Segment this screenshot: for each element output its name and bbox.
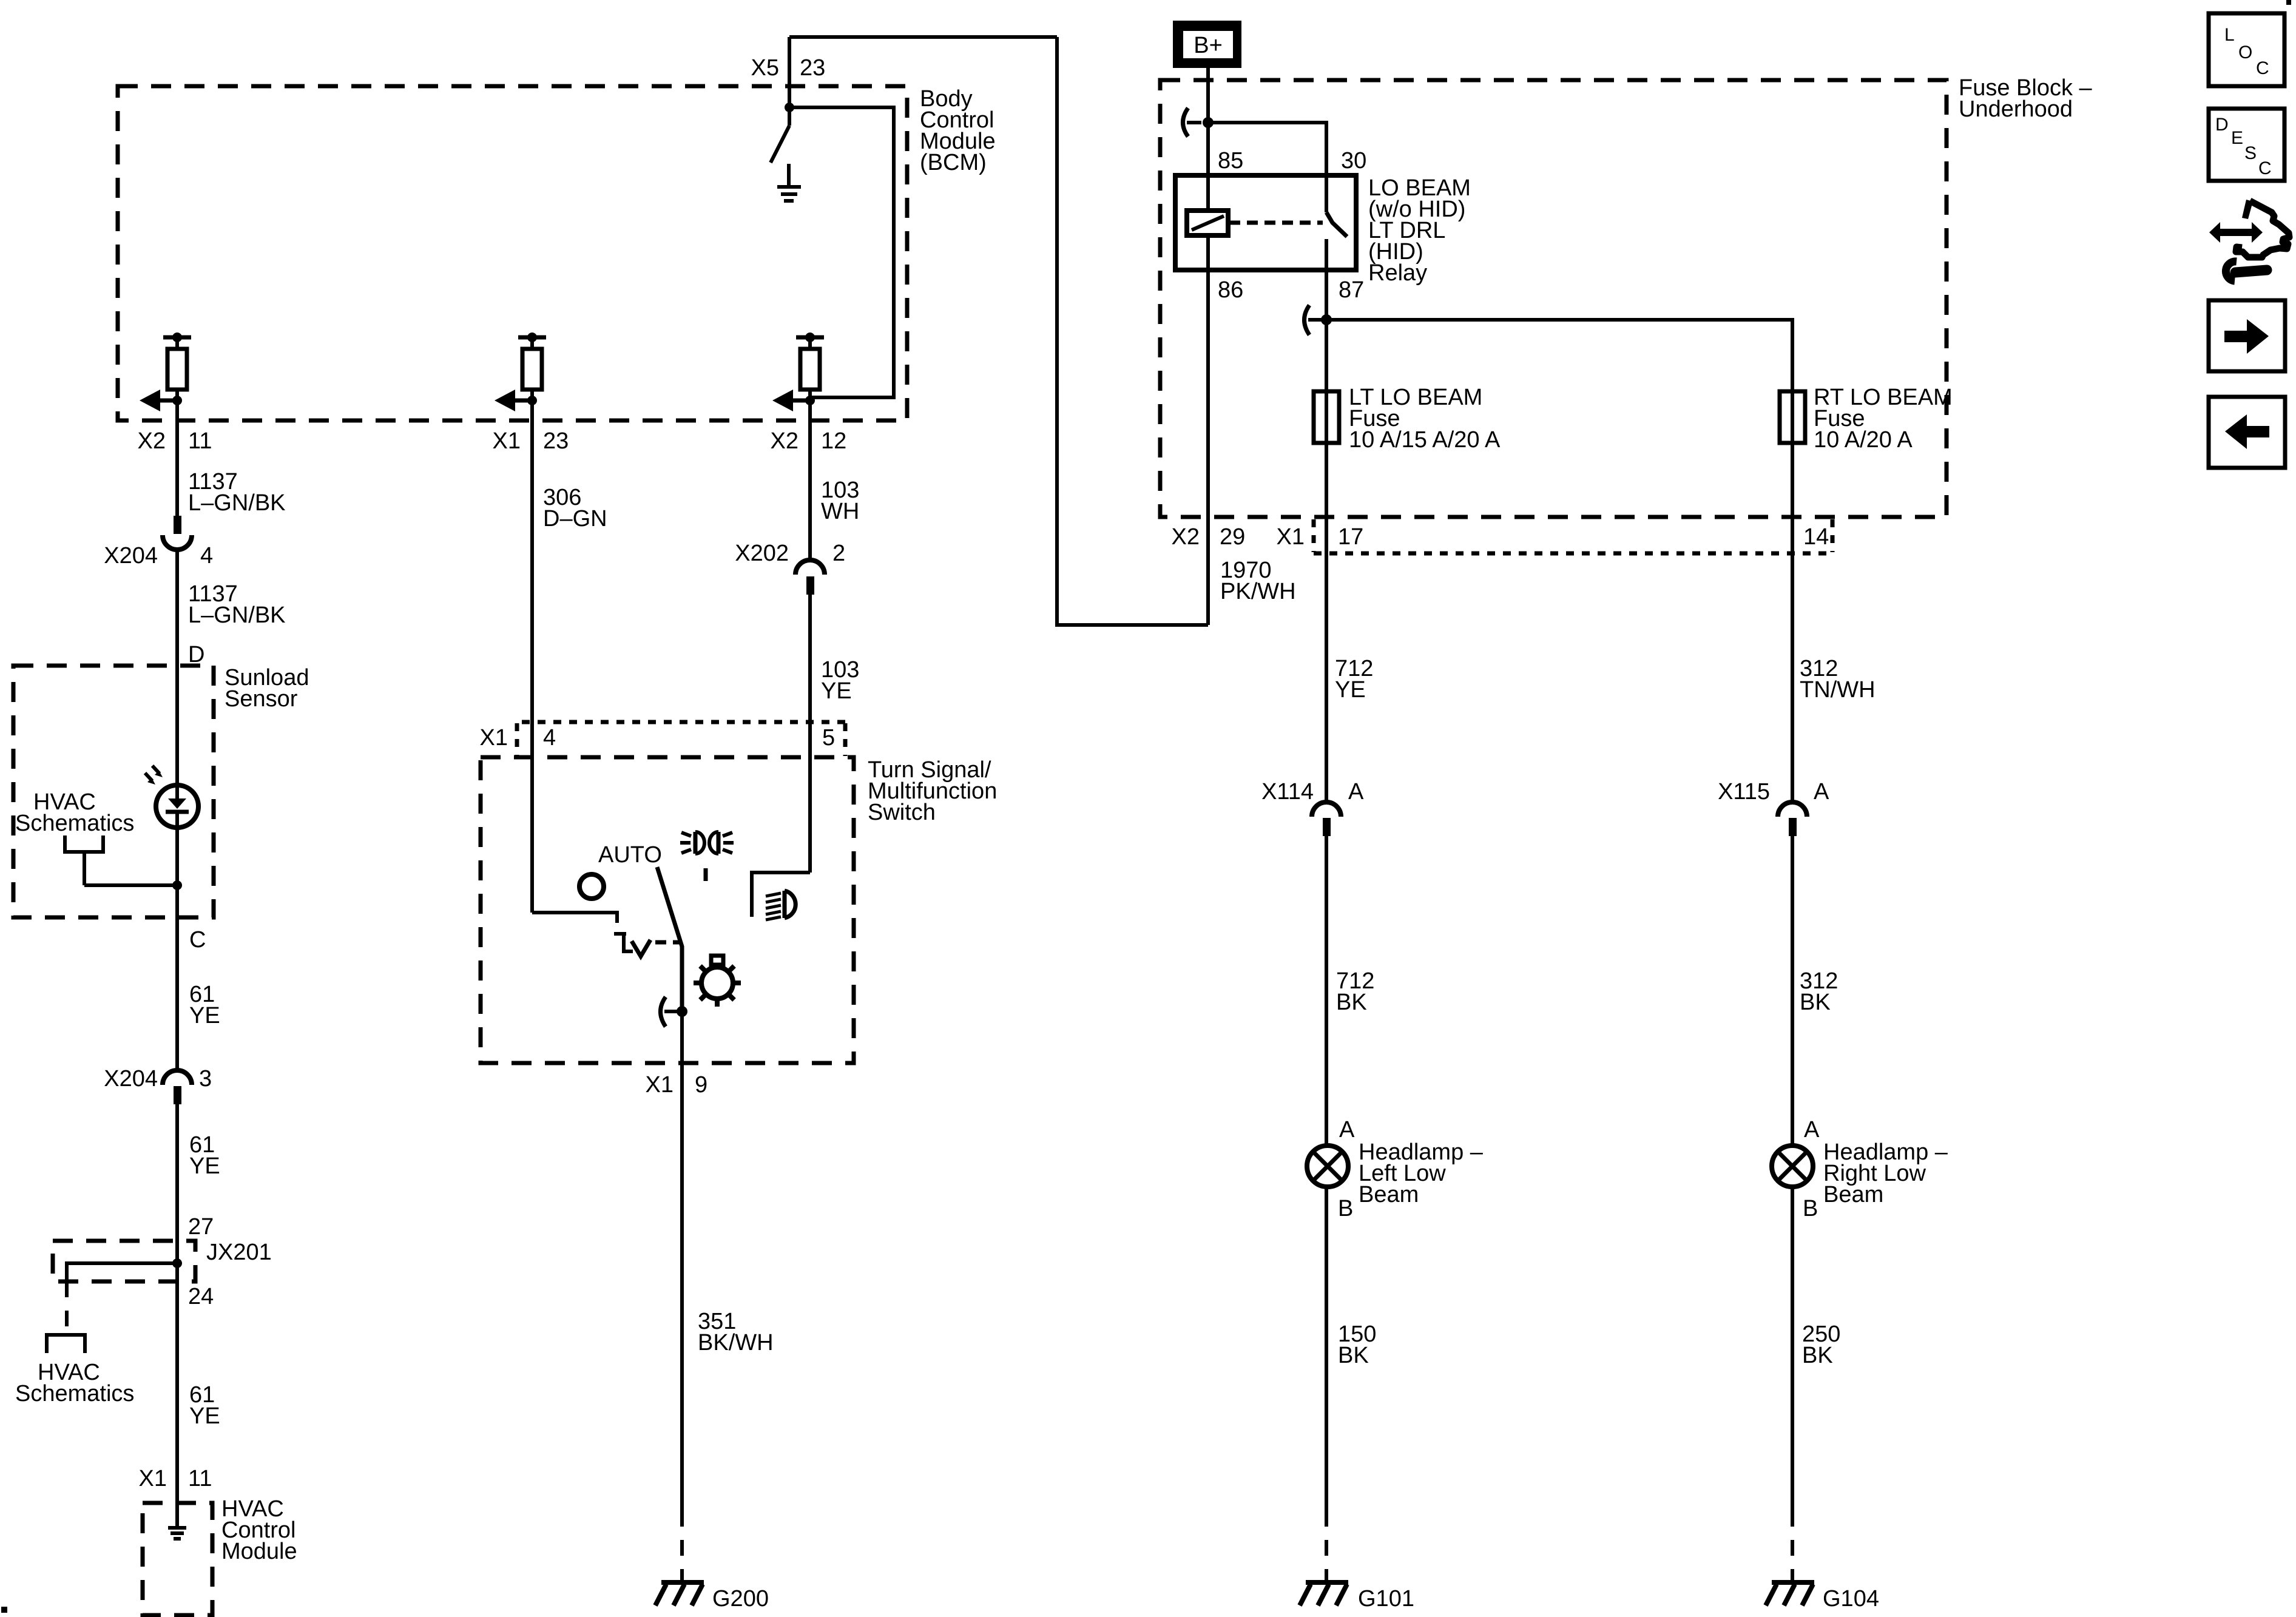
svg-text:X5: X5 [751,55,779,81]
ground G104 [1766,1575,1814,1605]
wire 87 to LT fuse [1325,320,1328,802]
svg-text:Switch: Switch [868,800,936,825]
wire BCM internal to X2-12 output [789,107,894,397]
svg-text:D: D [2215,115,2229,135]
label Headlamp Left Low Beam [1359,1139,1484,1207]
svg-text:Relay: Relay [1368,260,1427,286]
label 312 TN/WH [1800,656,1876,703]
svg-text:TN/WH: TN/WH [1800,677,1876,703]
svg-text:10 A/15 A/20 A: 10 A/15 A/20 A [1349,427,1501,453]
wire X5-23 to BCM top [788,37,791,107]
node JX201 junction [172,1258,182,1268]
label Body Control Module (BCM) [920,86,996,175]
svg-text:A: A [1339,1117,1355,1143]
label 351 BK/WH [698,1309,774,1355]
svg-text:L–GN/BK: L–GN/BK [188,603,286,628]
label LO BEAM relay [1368,175,1471,286]
wire 306 D-GN [530,420,534,913]
svg-text:X202: X202 [735,541,789,566]
ground G101 [1300,1575,1348,1605]
svg-text:X204: X204 [104,543,158,569]
icon back arrow box [2209,397,2285,468]
label A right headlamp [1804,1117,1820,1143]
label 712 BK [1336,968,1374,1015]
connector band X1 switch dotted [517,722,846,756]
wire 61 YE lower [175,1263,179,1526]
label Fuse Block Underhood [1959,75,2093,122]
label 150 BK [1338,1322,1376,1368]
icon headlamps-on [680,832,734,854]
BCM dashed box [118,86,907,420]
label 306 D-GN [543,485,607,532]
icon LOC box [2209,13,2284,86]
svg-text:A: A [1814,779,1829,805]
Sunload Sensor dashed box [13,666,214,917]
contact AUTO circle [579,874,604,899]
wire right vertical 1970 return path [1057,37,1208,625]
svg-text:BK: BK [1802,1343,1833,1368]
wire below resistor X2-11 [175,390,179,420]
connector X204 pin 3 [163,1070,192,1104]
svg-text:PK/WH: PK/WH [1220,579,1296,604]
svg-text:85: 85 [1218,148,1243,174]
splice hook at B+ junction [1183,108,1202,137]
arrow X2-11 output [140,390,177,411]
relay mechanical dashed link [1229,221,1323,225]
svg-text:B: B [1803,1196,1818,1221]
label 24 [188,1284,214,1309]
wire 61 YE middle [175,1104,179,1263]
terminal BCM X1-23 top bar [518,333,546,349]
svg-text:17: 17 [1338,524,1363,550]
svg-text:X1: X1 [1277,524,1305,550]
label HVAC Control Module [221,1496,297,1564]
svg-text:X1: X1 [493,428,521,454]
svg-text:Schematics: Schematics [15,1381,134,1406]
label 312 BK [1800,968,1838,1015]
svg-text:Schematics: Schematics [15,811,134,836]
svg-text:X2: X2 [771,428,799,454]
icon hand with arrow and wrench [2209,200,2289,281]
arrow X1-23 output [495,390,532,411]
svg-text:2: 2 [832,541,845,566]
svg-text:Beam: Beam [1823,1182,1883,1207]
svg-text:G101: G101 [1358,1586,1414,1612]
wire below resistor X1-23 [530,390,534,420]
label X115 A [1718,779,1829,805]
svg-text:4: 4 [543,725,556,751]
label 23 [800,55,825,81]
svg-text:X2: X2 [138,428,166,454]
wire B+ lead [1206,68,1210,211]
svg-text:87: 87 [1339,277,1364,303]
junction block JX201 dashed box [53,1241,195,1281]
terminal BCM X2-11 top bar [163,333,191,349]
svg-text:G104: G104 [1823,1586,1879,1612]
wire switch right contact path [752,873,810,917]
svg-text:Beam: Beam [1359,1182,1419,1207]
icon DESC box [2209,109,2284,181]
node X1-23 arrow junction [527,396,537,405]
wire 312 BK [1791,836,1794,1146]
svg-text:14: 14 [1803,524,1829,550]
label JX201 [206,1240,272,1265]
label 27 [188,1214,214,1240]
switch BCM internal driver [771,107,789,163]
svg-text:YE: YE [189,1003,220,1028]
wire 86 to X2-29 [1206,270,1210,625]
label B left headlamp [1338,1196,1353,1221]
relay coil [1187,211,1228,235]
svg-text:10 A/20 A: 10 A/20 A [1814,427,1913,453]
svg-text:L–GN/BK: L–GN/BK [188,490,286,516]
node X2-11 arrow junction [172,396,182,405]
svg-text:WH: WH [821,499,859,524]
svg-text:G200: G200 [712,1586,769,1612]
label D [188,642,204,667]
detent contact cluster [614,934,650,956]
wire 87 branch to RT fuse [1326,320,1792,391]
label C [189,927,206,953]
HVAC Control Module dashed box [143,1503,212,1615]
svg-text:4: 4 [200,543,213,569]
svg-text:B+: B+ [1194,33,1223,58]
svg-text:12: 12 [821,428,846,454]
node switch output junction [677,1006,687,1017]
photodiode sunload sensor [145,766,198,828]
svg-text:YE: YE [1335,677,1366,703]
wire switch left contact path [532,913,617,923]
ground G200 [655,1575,704,1605]
svg-text:24: 24 [188,1284,214,1309]
label HVAC Schematics upper [15,789,134,836]
wire dashed to HVAC schematics [65,1281,69,1335]
wire below resistor X2-12 [808,390,812,420]
label X2 12 [771,428,847,454]
svg-text:C: C [2258,158,2272,178]
label 1137 L-GN/BK upper [188,469,286,516]
label 61 YE lower [189,1382,220,1429]
wire 103 WH [808,420,812,560]
icon forward arrow box [2209,300,2285,371]
svg-text:A: A [1348,779,1364,805]
wire 250 BK [1791,1187,1794,1511]
connector band X1 fuse block dotted [1314,519,1832,553]
svg-text:X1: X1 [480,725,508,751]
svg-text:Module: Module [221,1539,297,1564]
label Sunload Sensor [225,665,309,712]
label HVAC Schematics lower [15,1360,134,1406]
svg-text:JX201: JX201 [206,1240,272,1265]
svg-text:A: A [1804,1117,1820,1143]
label 86 [1218,277,1243,303]
wire sensor lower [175,812,179,917]
svg-text:L: L [2224,25,2235,45]
svg-text:AUTO: AUTO [598,842,662,868]
label G101 [1358,1586,1414,1612]
wire dashed to G101 [1325,1511,1328,1578]
splice hook at 87 junction [1305,305,1323,335]
label X5 [751,55,779,81]
label 85 [1218,148,1243,174]
fuse LT LO BEAM [1314,391,1339,443]
label X1 11 HVAC [139,1466,212,1491]
mechanical dashed link [655,940,680,945]
label A left headlamp [1339,1117,1355,1143]
svg-text:BK: BK [1800,990,1831,1015]
svg-text:11: 11 [188,428,212,454]
svg-text:23: 23 [800,55,825,81]
svg-text:27: 27 [188,1214,214,1240]
svg-text:C: C [189,927,206,953]
svg-text:X1: X1 [646,1072,674,1098]
connector X115 pin A [1778,802,1807,836]
arrow X2-12 output [772,390,810,411]
svg-text:X115: X115 [1718,779,1770,805]
label Turn Signal Multifunction Switch [868,757,997,825]
svg-text:23: 23 [543,428,569,454]
wire JX201 branch [67,1263,177,1281]
svg-text:BK/WH: BK/WH [698,1330,774,1355]
label X2 11 [138,428,212,454]
lamp Headlamp Right Low Beam [1772,1146,1813,1187]
wire 150 BK [1325,1187,1328,1511]
svg-text:YE: YE [821,678,852,704]
label G200 [712,1586,769,1612]
wire 1137 L-GN/BK lower [175,549,179,798]
node sensor junction [172,880,182,890]
svg-text:BK: BK [1338,1343,1369,1368]
label X1 23 [493,428,569,454]
Fuse Block Underhood dashed box [1160,80,1947,517]
svg-text:29: 29 [1220,524,1245,550]
label X114 A [1261,779,1364,805]
connector X114 pin A [1312,802,1341,836]
connector X202 pin 2 [795,560,825,595]
resistor BCM X2-12 [800,349,820,390]
svg-text:X204: X204 [104,1066,158,1092]
label 250 BK [1802,1322,1840,1368]
wire top horizontal from X5 junction to right vertical [789,35,1057,39]
wire dashed to G104 [1791,1511,1794,1578]
label B right headlamp [1803,1196,1818,1221]
page mark bottom left [1,1607,7,1613]
wire to relay terminal 30 [1208,123,1326,175]
svg-text:E: E [2231,128,2243,148]
label 1970 PK/WH [1220,558,1296,604]
page mark top right [2286,0,2291,5]
svg-text:O: O [2238,42,2252,62]
offpage bracket to HVAC schematics [65,836,177,885]
wire 712 BK [1325,836,1328,1146]
svg-text:3: 3 [199,1066,212,1092]
node B+ junction [1203,117,1214,128]
node X2-12 arrow junction [805,396,815,405]
wire 103 YE [808,595,812,873]
label 61 YE middle [189,1132,220,1179]
wire coil to relay bottom [1206,235,1210,270]
label 30 [1341,148,1366,174]
icon parklamp [766,891,795,920]
wire 61 YE upper [175,917,179,1070]
offpage bracket HVAC schematics lower [47,1335,85,1353]
label G104 [1823,1586,1879,1612]
resistor BCM X1-23 [522,349,542,390]
terminal BCM X2-12 top bar [796,333,824,349]
label X204 3 [104,1066,212,1092]
svg-text:BK: BK [1336,990,1367,1015]
label 712 YE [1335,656,1373,703]
svg-text:(BCM): (BCM) [920,150,987,175]
label 14 band [1803,524,1829,550]
svg-text:Underhood: Underhood [1959,96,2073,122]
ground BCM internal [777,164,801,201]
svg-text:X114: X114 [1261,779,1314,805]
svg-text:11: 11 [188,1466,212,1491]
svg-text:X2: X2 [1172,524,1200,550]
wire RT fuse down [1791,391,1794,802]
ground HVAC control module [168,1528,186,1539]
svg-text:D–GN: D–GN [543,506,607,532]
svg-text:B: B [1338,1196,1353,1221]
label 5 band [822,725,835,751]
wire 87 down to junction [1325,270,1328,320]
svg-text:YE: YE [189,1403,220,1429]
label 103 YE [821,657,859,704]
label 87 [1339,277,1364,303]
label X1 4 band [480,725,556,751]
label X202 2 [735,541,845,566]
label AUTO [598,842,662,868]
svg-text:X1: X1 [139,1466,167,1491]
relay switch blade [1326,175,1347,270]
svg-text:Sensor: Sensor [225,686,298,712]
label 103 WH [821,478,859,524]
label X204 4 [104,543,213,569]
svg-text:C: C [2256,58,2269,78]
node 87 junction [1321,314,1332,325]
label RT LO BEAM fuse [1814,385,1953,453]
label X2 29 band [1172,524,1246,550]
label X1 17 band [1277,524,1364,550]
resistor BCM X2-11 [167,349,187,390]
lamp Headlamp Left Low Beam [1307,1146,1348,1187]
svg-text:9: 9 [695,1072,707,1098]
wire 351 BK/WH upper [680,1011,684,1511]
svg-text:5: 5 [822,725,835,751]
connector X204 pin 4 [163,516,192,550]
svg-text:30: 30 [1341,148,1366,174]
tick below headlamp icon [704,868,708,881]
fuse RT LO BEAM [1780,391,1805,443]
Turn Signal Multifunction Switch dashed box [481,757,854,1063]
label LT LO BEAM fuse [1349,385,1501,453]
relay LO BEAM box [1175,175,1356,270]
battery feed B+ box [1173,21,1241,68]
wire dashed to G200 [680,1511,684,1578]
icon rotary light switch [694,956,741,1007]
svg-text:YE: YE [189,1153,220,1179]
label X1 9 [646,1072,708,1098]
wire 1137 L-GN/BK upper [175,420,179,516]
label 1137 L-GN/BK lower [188,581,286,628]
label Headlamp Right Low Beam [1823,1139,1948,1207]
node BCM output junction [785,103,794,112]
splice hook at switch output [661,997,679,1027]
svg-text:86: 86 [1218,277,1243,303]
switch blade multifunction [657,867,682,1011]
label 61 YE upper [189,982,220,1028]
svg-text:S: S [2244,143,2257,163]
